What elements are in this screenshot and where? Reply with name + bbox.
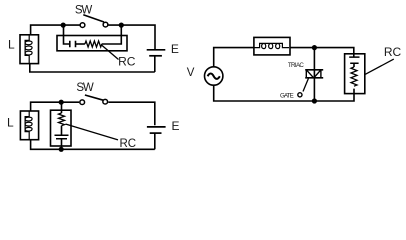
RC parallel box (circuit 2)	[51, 110, 72, 146]
wire: capacitor to resistor	[76, 43, 85, 45]
wire: resistor to dot B1	[102, 25, 122, 44]
resistor R (circuit 1) zigzag	[85, 41, 102, 47]
wire: source top to inductor box	[214, 48, 254, 67]
switch SW (circuit 2): contacts and blade	[80, 100, 85, 105]
wire: top wire left segment (circuit 2)	[31, 102, 80, 111]
svg-text:SW: SW	[76, 82, 93, 94]
svg-text:GATE: GATE	[280, 92, 294, 99]
wire: top wire right segment (right switch contact to battery top)	[108, 25, 155, 49]
wire: resistor to capacitor (circuit 2)	[61, 126, 63, 136]
inductor coil (circuit 3, horizontal)	[254, 43, 289, 48]
wire: pointer line to RC label (circuit 2)	[66, 124, 119, 140]
resistor R (circuit 2) vertical zigzag	[59, 113, 65, 126]
node: junction dot A1	[61, 23, 66, 28]
triac Q1: top and bottom bars	[305, 70, 323, 78]
node: junction dot B1	[119, 23, 124, 28]
triac Q1: main vertical	[313, 48, 315, 102]
resistor R (circuit 3) vertical zigzag	[351, 67, 357, 86]
RC snubber box (circuit 1)	[57, 36, 127, 51]
svg-text:E: E	[171, 42, 179, 56]
wire: top wire right segment (circuit 2)	[108, 102, 155, 125]
svg-text:L: L	[7, 116, 14, 130]
wire: top wire left segment (corner to left switch contact)	[31, 25, 80, 35]
svg-text:TRIAC: TRIAC	[288, 62, 305, 69]
node: bottom junction dot (circuit 3)	[312, 98, 317, 103]
wire: inductor box to top junction	[290, 48, 354, 58]
triac Q1: triangles	[306, 70, 321, 78]
svg-text:RC: RC	[120, 138, 137, 150]
node: top junction dot (circuit 3)	[312, 45, 317, 50]
wire: pointer line to RC label (circuit 1)	[102, 45, 119, 60]
RC snubber box (circuit 3)	[345, 54, 365, 94]
wire: bottom wire (circuit 1)	[30, 64, 155, 72]
triac Q1: gate lead and terminal	[303, 78, 309, 92]
wire: dot A2 down to resistor	[61, 102, 63, 113]
inductor L (circuit 1): box with coil	[20, 35, 39, 64]
svg-text:SW: SW	[75, 5, 92, 17]
svg-text:RC: RC	[384, 45, 402, 59]
svg-text:RC: RC	[118, 55, 136, 69]
node: junction dot A2 (top of RC branch)	[59, 100, 64, 105]
svg-text:L: L	[8, 38, 15, 52]
wire: bottom wire (circuit 2)	[31, 140, 155, 150]
capacitor C (circuit 2) plates	[55, 135, 69, 139]
battery E (circuit 2)	[147, 126, 166, 128]
wire: pointer line to RC label (circuit 3)	[365, 59, 394, 74]
capacitor C (circuit 1) plates	[70, 41, 76, 47]
AC source V (circle with sine)	[205, 67, 223, 85]
svg-text:E: E	[172, 119, 180, 133]
node: junction dot B2 (bottom of RC branch)	[59, 147, 64, 152]
wire: capacitor to bottom dot (circuit 2)	[61, 139, 63, 150]
switch SW (circuit 1): contacts and blade	[80, 23, 85, 28]
battery E (circuit 1)	[147, 49, 166, 51]
inductor L (circuit 2): box with coil	[20, 111, 38, 140]
svg-text:V: V	[187, 67, 195, 79]
wire: capacitor to resistor (circuit 3)	[353, 63, 355, 67]
wire: dot A1 down into box to capacitor	[64, 25, 70, 44]
capacitor C (circuit 3) plates	[349, 57, 359, 63]
inductor box (circuit 3)	[254, 37, 290, 55]
wire: resistor to box bottom and bottom wire (circuit 3)	[214, 85, 354, 101]
